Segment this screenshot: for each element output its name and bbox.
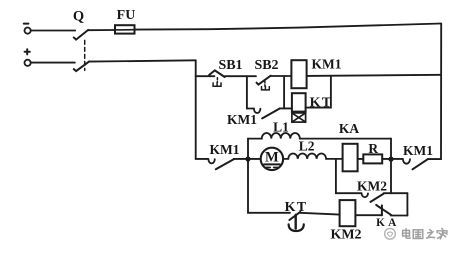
inductor L2 [283,153,342,158]
pushbutton SB2 actuator [262,81,270,90]
wire from KT coil up to KM1 coil output [306,76,331,108]
contact KM2 blade [371,194,384,202]
svg-text:KM2: KM2 [330,227,361,242]
wire from KM1 left blade to node A [234,158,248,160]
wire resistor R to node D [382,158,391,160]
resistor R [363,154,382,163]
switch Q mechanical link (dashed) [84,40,86,70]
svg-text:L1: L1 [273,119,289,134]
wire bus corner to KM1 main contact [196,158,209,160]
wire from SB1 to SB2 [225,75,256,77]
pushbutton SB1 (NC) blade [209,70,225,77]
svg-text:KM1: KM1 [210,142,240,157]
svg-text:KM1: KM1 [227,112,257,127]
contactor coil KM2 [340,200,356,226]
svg-text:KM1: KM1 [403,143,433,158]
svg-text:L2: L2 [299,139,315,154]
contact KA blade [376,205,391,215]
pushbutton SB2 (NO) blade [257,76,271,85]
contact KM2 hook [362,193,368,197]
wire right rail down [440,24,442,160]
wire from minus terminal to switch Q top pole [31,30,75,32]
terminal plus [25,49,31,66]
wire node D down to KM2 contact row [390,159,392,193]
wire from node A to motor [248,158,261,160]
wire top rail from fuse to right side [135,24,442,30]
watermark text yuan [413,230,423,239]
wire node D to KM1 right contact [391,158,403,160]
inductor L1 branch: wire up from node A [247,139,249,159]
wire KM2 blade to corner [384,192,408,194]
contact KM1 self-holding blade [262,109,279,119]
wire KA coil to resistor R [358,158,364,160]
wire node C branch down [283,76,285,108]
wire from KM1 coil to right rail [307,75,441,76]
time contact KT delay symbol (anchor) [289,215,304,231]
wire from Q bottom blade to left bus corner [89,60,196,61]
wire to KM1 aux contact [247,108,254,110]
contact KM1 left hook [208,159,214,163]
wire to KM2 contact [336,192,362,194]
wire from plus terminal to switch Q bottom pole [31,62,75,64]
node D junction dot [388,157,393,162]
inductor L1 [248,133,391,139]
wire from node A down to bottom row [248,159,290,213]
node A junction dot [245,156,250,161]
watermark text zhi [427,230,435,238]
pushbutton SB1 actuator [213,78,221,87]
svg-text:KA: KA [339,121,360,136]
wire from SB2 to KM1 coil [271,75,292,77]
svg-text:K A: K A [376,217,397,229]
wire KM1 right blade to right rail [428,158,441,160]
wire corner down to KA contact row [406,193,408,215]
fuse FU [115,25,135,33]
svg-text:SB1: SB1 [218,58,242,73]
watermark text dian [403,229,411,239]
wire KT contact to KM2 coil [300,213,339,215]
contact KM1 left blade [216,159,234,169]
svg-text:KM2: KM2 [357,178,387,193]
time relay KT delay element box [292,113,306,122]
svg-text:R: R [368,141,378,156]
contact KM1 right hook [403,159,410,164]
wire KM2 coil to KA contact [355,214,382,216]
wire control row from bus to SB1 [196,75,215,77]
wire KA contact to right corner [391,215,408,217]
contact KM1 right blade [413,159,428,169]
svg-text:M: M [265,149,279,165]
contact KM1 self-holding hook [254,109,261,113]
wire branch from main row down to KM2 contact [335,159,337,193]
watermark text jia [437,228,447,239]
wire L1 down to node D [390,139,392,159]
wire left bus vertical [195,60,197,159]
wire from aux contact to KT coil [280,107,292,109]
time contact KT blade [289,212,300,220]
contactor coil KM1 [291,60,306,88]
wire from Q top blade to fuse FU [88,29,115,31]
time relay coil KT [292,93,306,111]
svg-text:Q: Q [73,9,84,25]
svg-text:KM1: KM1 [312,56,342,71]
wire node B branch down (self hold) [246,76,248,108]
svg-text:FU: FU [117,8,136,23]
svg-text:SB2: SB2 [254,58,278,73]
motor M [261,148,283,170]
switch Q bottom blade [74,61,89,71]
switch Q top blade [74,30,88,40]
terminal minus [24,24,31,34]
relay coil KA [343,144,358,172]
watermark logo [385,228,396,239]
contact KA (NC) fixed post [381,205,383,215]
